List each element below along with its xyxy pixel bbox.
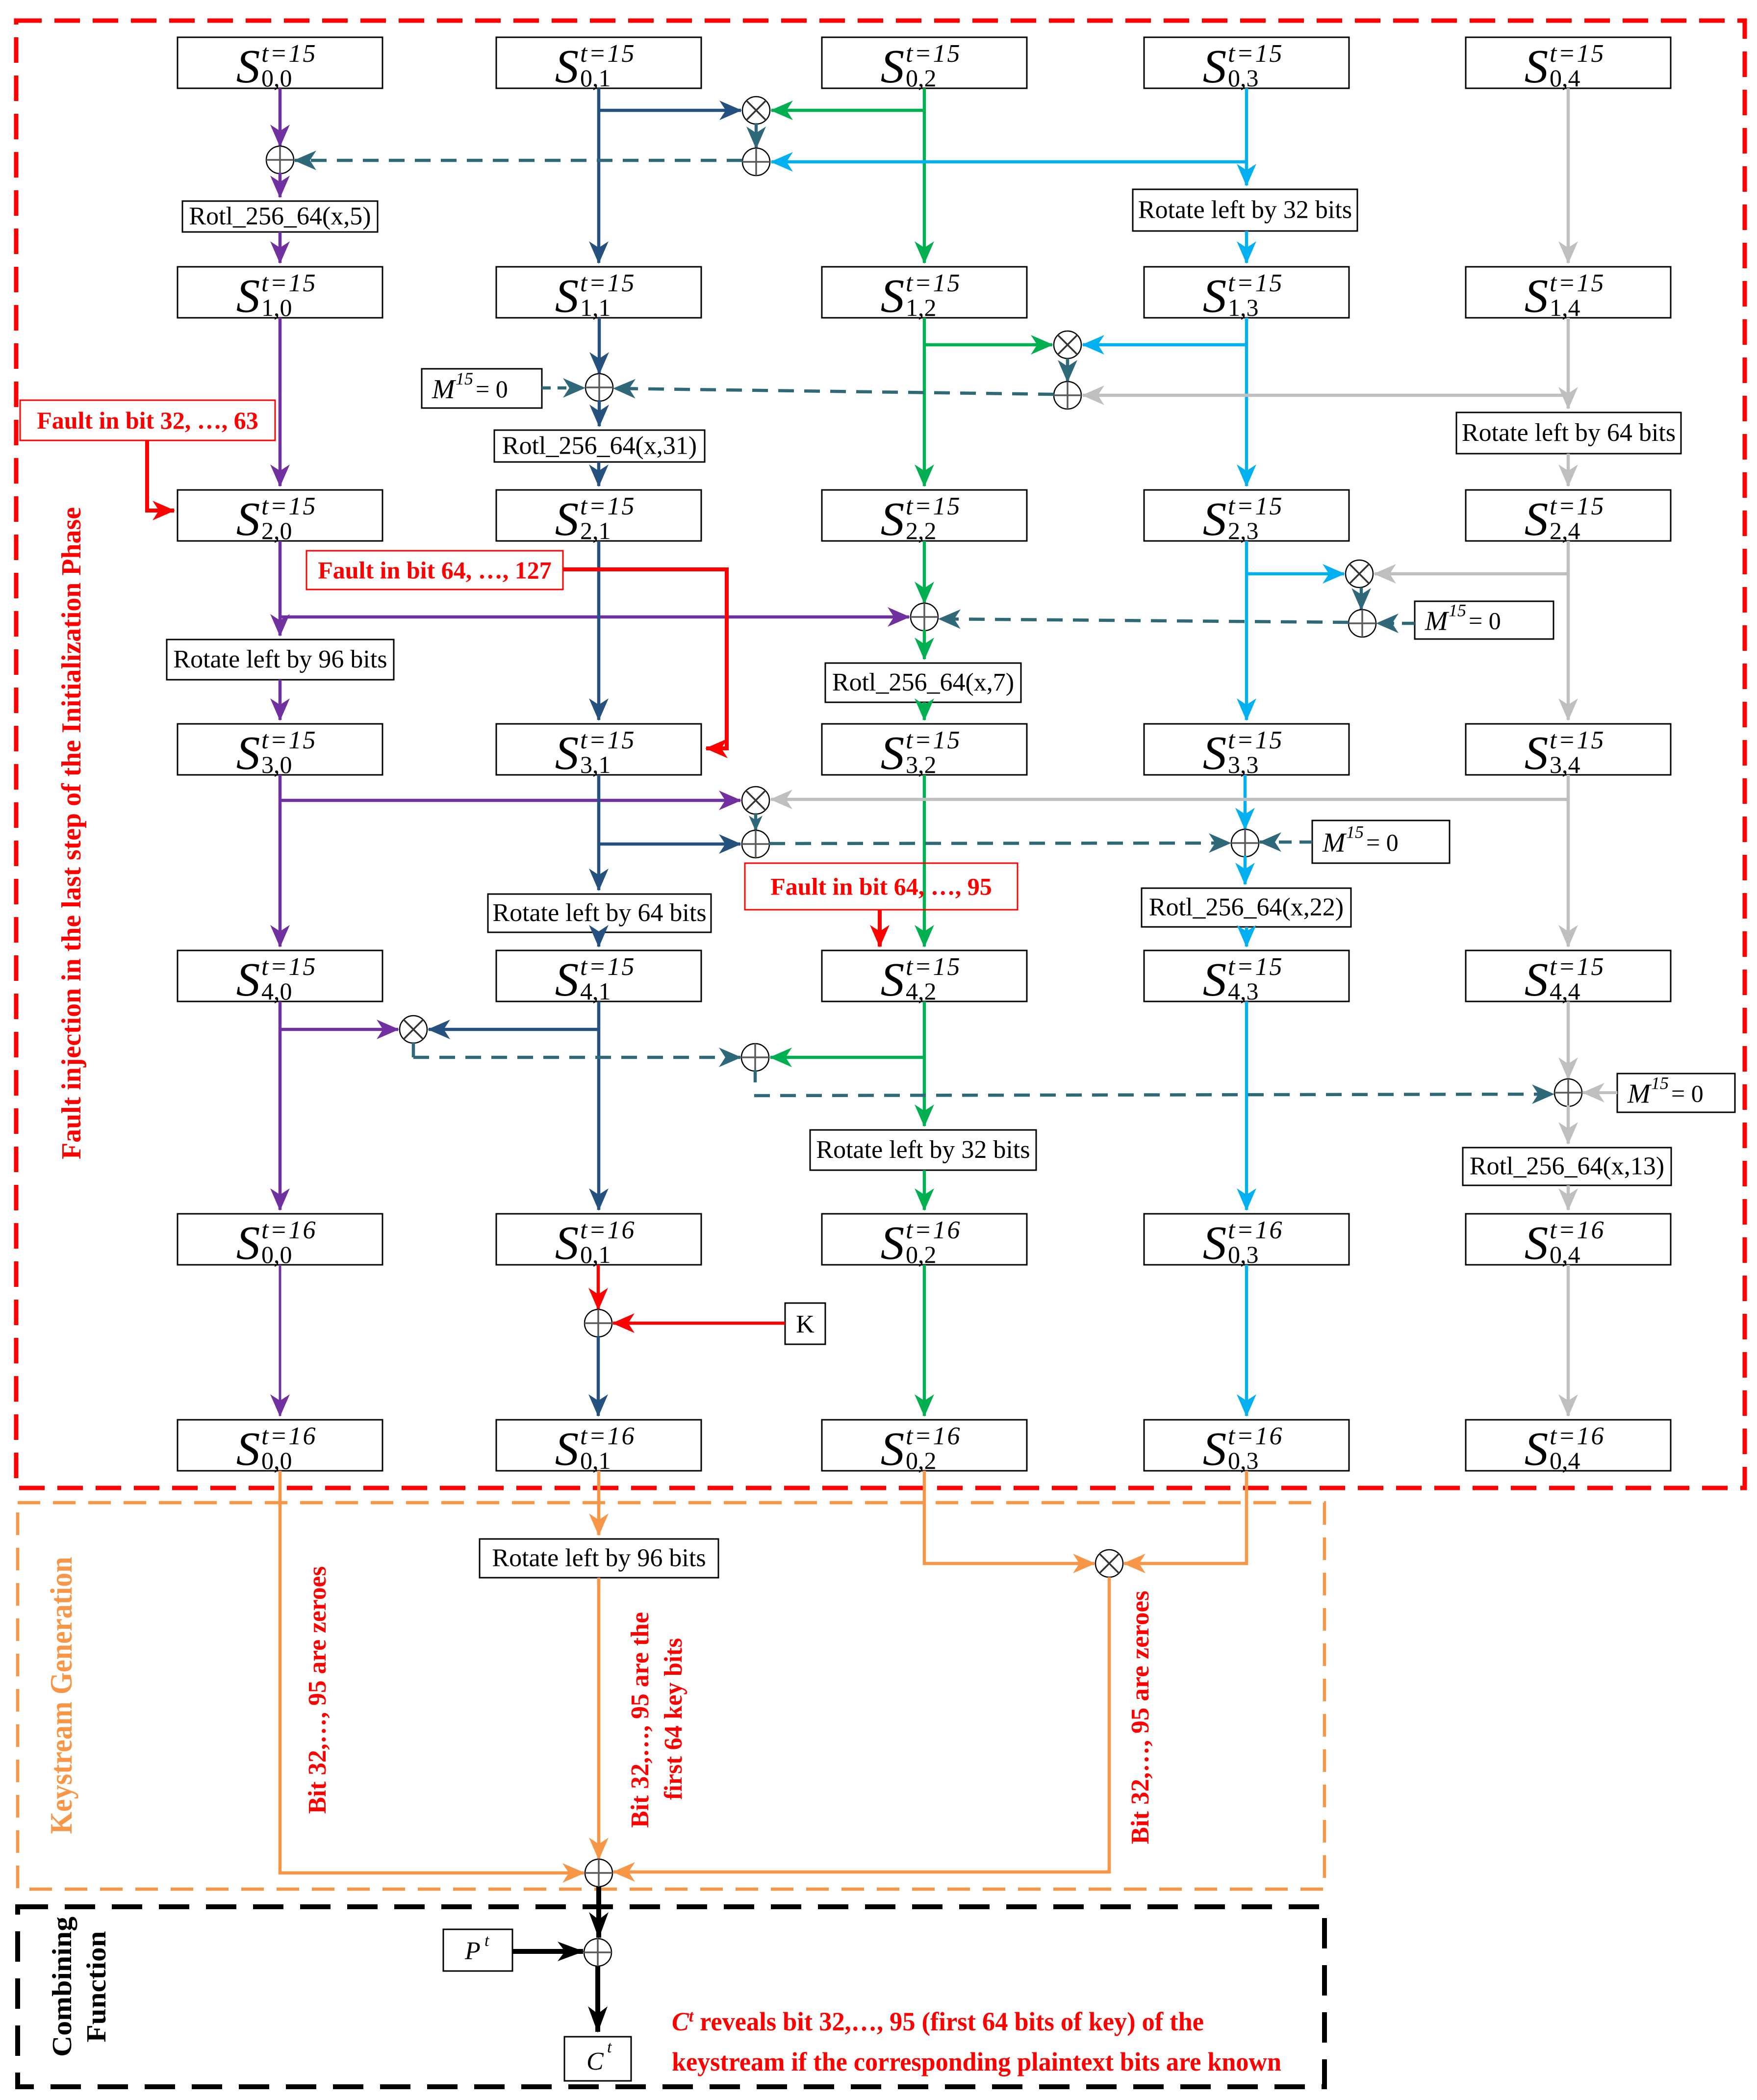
state box S43 t=15 (1144, 950, 1349, 1006)
red fault wire F2 to S31 (563, 569, 727, 748)
svg-text:S: S (1525, 270, 1549, 322)
state box S04 t=16 first (1466, 1214, 1671, 1269)
svg-text:S: S (555, 953, 579, 1006)
svg-text:0,4: 0,4 (1550, 1447, 1580, 1474)
state box S33 t=15 (1144, 724, 1349, 779)
svg-text:S: S (1525, 953, 1549, 1006)
svg-text:1,4: 1,4 (1550, 294, 1580, 321)
dashed teal arrow M15C to xor PC (1260, 841, 1312, 844)
state box S00 t=16 second (178, 1420, 382, 1475)
xor node PO keystream (585, 1859, 612, 1887)
svg-text:S: S (236, 1423, 260, 1475)
wire navy branch right to mul X1 (599, 109, 741, 112)
svg-text:0,2: 0,2 (906, 1447, 937, 1474)
fault box F2: Fault in bit 64..127 (306, 551, 563, 589)
svg-text:3,0: 3,0 (261, 751, 292, 778)
svg-text:M: M (432, 374, 457, 405)
wire cyan Rotate32 to S13 (1245, 231, 1248, 263)
wire navy branch left to mul X5 (429, 1028, 599, 1031)
svg-text:Rotate left by 96 bits: Rotate left by 96 bits (492, 1544, 706, 1572)
state box S42 t=15 (822, 950, 1027, 1006)
svg-text:t=15: t=15 (261, 269, 317, 297)
svg-text:t=15: t=15 (1228, 269, 1284, 297)
svg-text:S: S (1525, 1217, 1549, 1269)
dashed teal wire xor P3 to xor PB (939, 619, 1349, 622)
dashed teal wire xor P4 to xor PC (769, 843, 1230, 844)
svg-text:t=15: t=15 (261, 726, 317, 754)
wire purple branch right to mul X5 (280, 1028, 398, 1031)
svg-text:Fault in bit 32, …, 63: Fault in bit 32, …, 63 (37, 407, 258, 434)
op box Rotl_256_64(x,7) (825, 663, 1021, 702)
svg-text:3,3: 3,3 (1228, 751, 1259, 778)
wire green S02 down to junction (923, 88, 926, 110)
wire navy S31 down to junction2 (597, 775, 601, 844)
black wire PF to Ct box (595, 1966, 600, 2032)
dashed teal arrow M15B to xor P3 (1377, 622, 1415, 625)
svg-text:t=15: t=15 (580, 726, 636, 754)
op box Rotl_256_64(x,22) (1142, 888, 1351, 927)
svg-text:Function: Function (81, 1931, 112, 2043)
wire purple S00 to xor node A0 (279, 88, 282, 146)
M15 box B (1415, 601, 1553, 640)
wire gray xor PD to Rotl13 (1567, 1105, 1570, 1144)
wire navy Rotate64 to S41 (597, 932, 601, 947)
svg-text:t=15: t=15 (1228, 40, 1284, 68)
wire cyan branch left to mul X2 (1083, 343, 1247, 347)
state box S10 t=15 (178, 267, 382, 322)
svg-text:t=15: t=15 (1228, 492, 1284, 520)
svg-text:S: S (1525, 1423, 1549, 1475)
svg-text:first 64 key bits: first 64 key bits (660, 1638, 688, 1800)
svg-text:t=15: t=15 (261, 953, 317, 981)
wire gray junction to Rotate64 box (1567, 395, 1570, 409)
svg-text:0,4: 0,4 (1550, 1241, 1580, 1268)
svg-text:S: S (881, 953, 905, 1006)
wire navy S21 to S31 (597, 541, 601, 720)
svg-text:4,2: 4,2 (906, 977, 937, 1005)
svg-text:t=15: t=15 (580, 269, 636, 297)
orange dashed border: keystream generation box (18, 1503, 1324, 1889)
dashed teal wire xor P1 to xor A0 (295, 159, 742, 162)
svg-text:Bit 32,…, 95 are zeroes: Bit 32,…, 95 are zeroes (1126, 1591, 1154, 1844)
svg-text:S: S (1203, 1217, 1227, 1269)
svg-text:S: S (236, 40, 260, 93)
svg-text:Keystream Generation: Keystream Generation (44, 1557, 78, 1834)
svg-text:t=16: t=16 (261, 1422, 317, 1450)
state box S11 t=15 (496, 267, 701, 322)
xor node P2 (1054, 382, 1081, 409)
state box S44 t=15 (1466, 950, 1671, 1006)
wire purple S20 down to junction (279, 541, 282, 617)
svg-text:4,4: 4,4 (1550, 977, 1580, 1005)
wire gray S24 down to junction2 (1567, 541, 1570, 573)
svg-text:S: S (236, 727, 260, 779)
svg-text:t=15: t=15 (1228, 953, 1284, 981)
teal elbow X5 to dashed run (412, 1042, 415, 1057)
svg-text:t=16: t=16 (261, 1216, 317, 1244)
orange wire col2 to mul XO (924, 1471, 1095, 1563)
state box S02 t=16 second (822, 1420, 1027, 1475)
svg-text:S: S (236, 270, 260, 322)
wire purple S30 down to junction2 (279, 775, 282, 800)
dashed teal arrow M15A to xor PA (542, 386, 585, 390)
wire cyan branch right to mul X3 (1247, 572, 1344, 576)
wire cyan S03t16 to S03t16 second (1245, 1265, 1248, 1416)
op box Rotate left by 32 bits col2 (810, 1130, 1036, 1170)
svg-text:0,1: 0,1 (580, 1241, 611, 1268)
svg-text:0,3: 0,3 (1228, 1241, 1259, 1268)
state box S03 t=16 first (1144, 1214, 1349, 1269)
svg-text:S: S (881, 727, 905, 779)
svg-text:t=15: t=15 (906, 726, 962, 754)
xor node PC (1231, 829, 1259, 857)
svg-text:Combining: Combining (47, 1917, 77, 2057)
wire purple junction3 to S00 t=16 (279, 1029, 282, 1210)
svg-text:S: S (555, 1217, 579, 1269)
state box S03 t=15 (1144, 37, 1349, 93)
wire cyan S13 down to junction2 (1245, 318, 1248, 345)
svg-text:t=15: t=15 (261, 40, 317, 68)
state box S12 t=15 (822, 267, 1027, 322)
svg-text:t=16: t=16 (906, 1216, 962, 1244)
xor node A0 (266, 146, 294, 174)
svg-text:2,1: 2,1 (580, 517, 611, 544)
svg-text:t=15: t=15 (1550, 953, 1605, 981)
wire cyan Rotl22 to S43 (1245, 927, 1248, 947)
state box S01 t=15 (496, 37, 701, 93)
wire gray S44 to xor PD (1567, 1001, 1570, 1079)
svg-text:t=16: t=16 (580, 1216, 636, 1244)
wire cyan S33 to xor PC (1244, 775, 1247, 829)
svg-text:M: M (1322, 828, 1347, 858)
svg-text:M: M (1627, 1079, 1652, 1109)
mul node X4 (742, 787, 769, 814)
state box S40 t=15 (178, 950, 382, 1006)
svg-text:Bit 32,…, 95 are zeroes: Bit 32,…, 95 are zeroes (304, 1566, 331, 1814)
svg-text:t=15: t=15 (1550, 726, 1605, 754)
wire navy S41 down to junction3 (597, 1001, 601, 1029)
mul node XO orange (1095, 1550, 1123, 1577)
wire gray branch left to mul X3 (1375, 572, 1568, 576)
black wire Pt to xor PF (512, 1949, 583, 1954)
svg-text:0,3: 0,3 (1228, 1447, 1259, 1474)
svg-text:15: 15 (1651, 1074, 1669, 1093)
svg-text:S: S (1203, 953, 1227, 1006)
xor node P5 (741, 1044, 769, 1071)
wire red K to xor PK (613, 1322, 785, 1325)
svg-text:Rotate left by 96 bits: Rotate left by 96 bits (173, 645, 387, 673)
wire cyan S03 down to junction (1245, 88, 1248, 162)
xor node P3 (1349, 610, 1376, 637)
wire gray junction2 to S34 (1567, 573, 1570, 720)
wire purple branch right to mul X4 (280, 799, 740, 802)
op box Rotate left by 32 bits col3 (1133, 189, 1357, 231)
svg-text:S: S (555, 40, 579, 93)
svg-text:3,1: 3,1 (580, 751, 611, 778)
xor node PB (911, 603, 938, 631)
svg-text:Rotate left by 64 bits: Rotate left by 64 bits (1462, 419, 1676, 447)
wire green branch left to xor P5 (770, 1056, 924, 1059)
state box S20 t=15 (178, 490, 382, 545)
svg-text:S: S (1203, 40, 1227, 93)
svg-text:2,3: 2,3 (1228, 517, 1259, 544)
mul node X2 (1054, 331, 1081, 359)
black dashed border: combining function box (18, 1907, 1324, 2087)
xor node PK key addition (585, 1309, 612, 1337)
orange wire Rotate96 to xor PO (597, 1578, 601, 1859)
svg-text:S: S (1525, 727, 1549, 779)
teal stub X1 to xor P1 (755, 123, 758, 148)
svg-text:M: M (1425, 606, 1450, 637)
svg-text:1,0: 1,0 (261, 294, 292, 321)
wire purple xor A0 to Rotl box (279, 173, 282, 197)
wire green S22 to xor PB (923, 541, 926, 603)
svg-text:S: S (555, 270, 579, 322)
wire cyan branch left to xor P1 (771, 160, 1247, 164)
svg-text:S: S (555, 493, 579, 545)
wire green S02t16 to S02t16 second (923, 1265, 926, 1416)
state box S32 t=15 (822, 724, 1027, 779)
svg-text:1,1: 1,1 (580, 294, 611, 321)
svg-text:t=16: t=16 (1228, 1422, 1284, 1450)
wire red S01t16 to xor PK (597, 1265, 600, 1309)
wire gray junction3 to S44 (1567, 799, 1570, 947)
svg-text:2,4: 2,4 (1550, 517, 1580, 544)
svg-text:t=15: t=15 (906, 269, 962, 297)
state box S01 t=16 second (496, 1420, 701, 1475)
wire navy junction3 to S01 t=16 (597, 1029, 601, 1210)
wire cyan junction3 to S33 (1245, 573, 1248, 720)
svg-text:S: S (236, 1217, 260, 1269)
wire green S32 to S42 (923, 775, 926, 947)
wire green xor PB to Rotl7 (923, 630, 926, 659)
teal stub X3 to xor P3 (1360, 588, 1363, 610)
wire green Rotate32 to S02 t=16 (923, 1170, 926, 1210)
fault box F1: Fault in bit 32..63 (20, 400, 275, 440)
wire purple branch right to xor PB (280, 615, 909, 619)
svg-text:0,1: 0,1 (580, 1447, 611, 1474)
svg-text:S: S (1203, 727, 1227, 779)
state box S04 t=15 (1466, 37, 1671, 93)
svg-text:S: S (555, 727, 579, 779)
svg-text:2,2: 2,2 (906, 517, 937, 544)
orange wire col1 into Rotate96 (597, 1471, 601, 1535)
mul node X3 (1346, 560, 1373, 588)
svg-text:S: S (555, 1423, 579, 1475)
svg-text:t=16: t=16 (1550, 1216, 1605, 1244)
wire navy branch right to xor P4 (599, 843, 740, 846)
wire cyan S43 to S03 t=16 (1245, 1001, 1248, 1210)
svg-text:= 0: = 0 (1671, 1080, 1704, 1107)
svg-text:15: 15 (1346, 822, 1364, 842)
mul node X1 (742, 97, 770, 124)
black wire PO to xor PF (596, 1887, 601, 1938)
state box S23 t=15 (1144, 490, 1349, 545)
wire green S12 down to junction2 (923, 318, 926, 345)
wire gray Rotl13 to S04 t=16 (1567, 1185, 1570, 1210)
wire gray Rotate64 to S24 (1567, 454, 1570, 486)
wire gray S04t16 to S04t16 second (1567, 1265, 1570, 1416)
svg-text:0,0: 0,0 (261, 1241, 292, 1268)
state box S02 t=15 (822, 37, 1027, 93)
svg-text:Rotl_256_64(x,13): Rotl_256_64(x,13) (1470, 1152, 1664, 1180)
svg-text:15: 15 (1449, 601, 1466, 620)
K box (785, 1303, 825, 1344)
svg-text:0,3: 0,3 (1228, 64, 1259, 92)
wire cyan S23 down to junction3 (1245, 541, 1248, 573)
svg-text:t=15: t=15 (1228, 726, 1284, 754)
svg-text:Ct reveals bit 32,…, 95 (firs: Ct reveals bit 32,…, 95 (first 64 bits o… (672, 2007, 1204, 2036)
svg-text:Fault in bit 64, …, 95: Fault in bit 64, …, 95 (770, 873, 992, 900)
wire gray S34 down to junction3 (1567, 775, 1570, 799)
state box S31 t=15 (496, 724, 701, 779)
op box Rotl_256_64(x,5) (182, 201, 378, 232)
xor node PD (1554, 1079, 1582, 1106)
state box S22 t=15 (822, 490, 1027, 545)
svg-text:t=15: t=15 (580, 953, 636, 981)
state box S02 t=16 first (822, 1214, 1027, 1269)
state box S30 t=15 (178, 724, 382, 779)
svg-text:P: P (464, 1937, 481, 1965)
svg-text:Rotl_256_64(x,31): Rotl_256_64(x,31) (502, 432, 697, 460)
svg-text:= 0: = 0 (1469, 607, 1501, 635)
state box S14 t=15 (1466, 267, 1671, 322)
wire cyan junction2 to S23 (1245, 345, 1248, 486)
gray arrow M15D to xor PD (1583, 1091, 1617, 1094)
svg-text:0,2: 0,2 (906, 1241, 937, 1268)
svg-text:S: S (1525, 40, 1549, 93)
wire navy S01 down to junction (597, 88, 601, 110)
M15 box A (422, 369, 542, 408)
wire green branch right to mul X2 (924, 343, 1052, 347)
svg-text:0,2: 0,2 (906, 64, 937, 92)
svg-text:Rotate left by 32 bits: Rotate left by 32 bits (1138, 196, 1352, 224)
svg-text:= 0: = 0 (1366, 829, 1399, 856)
svg-text:S: S (881, 493, 905, 545)
M15 box C (1312, 820, 1450, 863)
Pt box (443, 1929, 512, 1971)
svg-text:t=15: t=15 (906, 492, 962, 520)
svg-text:= 0: = 0 (476, 375, 508, 403)
wire purple Rotl to S10 (279, 232, 282, 263)
op box Rotate left by 64 bits col4 (1456, 412, 1681, 454)
wire green junction to S12 (923, 110, 926, 263)
dashed teal wire P5 to xor PD (754, 1094, 1553, 1096)
state box S03 t=16 second (1144, 1420, 1349, 1475)
svg-text:3,2: 3,2 (906, 751, 937, 778)
svg-text:t=15: t=15 (1550, 40, 1605, 68)
xor node P1 (742, 148, 770, 176)
wire navy junction2 to Rotate64 box (597, 844, 601, 890)
red fault wire F3 to S42 (878, 910, 882, 947)
wire cyan xor PC to Rotl22 (1244, 856, 1247, 884)
svg-text:Rotate left by 64 bits: Rotate left by 64 bits (492, 899, 706, 927)
wire purple junction2 to S40 (279, 800, 282, 947)
svg-text:Fault injection in the last st: Fault injection in the last step of the … (56, 507, 87, 1159)
orange wire XO to xor PO (613, 1577, 1109, 1872)
red fault wire F1 to S20 (147, 440, 174, 511)
svg-text:S: S (881, 1423, 905, 1475)
red dashed border: fault injection phase box (16, 21, 1745, 1488)
wire green Rotl7 to S32 (923, 702, 926, 720)
wire purple Rotate96 to S30 (279, 680, 282, 720)
wire green S42 down to junction3 (923, 1001, 926, 1057)
svg-text:4,1: 4,1 (580, 977, 611, 1005)
xor node PF combining (584, 1939, 611, 1966)
svg-text:0,4: 0,4 (1550, 64, 1580, 92)
dashed teal wire X5 to xor P5 (413, 1056, 740, 1059)
state box S00 t=15 (178, 37, 382, 93)
svg-text:15: 15 (456, 369, 473, 388)
svg-text:t: t (607, 2038, 612, 2056)
svg-text:keystream if the correspondin: keystream if the corresponding plaintext… (672, 2047, 1281, 2076)
state box S01 t=16 first (496, 1214, 701, 1269)
teal stub X2 to xor P2 (1066, 359, 1069, 382)
wire purple S10 to S20 (279, 318, 282, 486)
svg-text:S: S (881, 40, 905, 93)
svg-text:t=16: t=16 (1550, 1422, 1605, 1450)
svg-text:t: t (484, 1932, 490, 1950)
state box S13 t=15 (1144, 267, 1349, 322)
svg-text:4,0: 4,0 (261, 977, 292, 1005)
svg-text:t=16: t=16 (1228, 1216, 1284, 1244)
svg-text:Fault in bit 64, …, 127: Fault in bit 64, …, 127 (318, 557, 551, 584)
wire navy xor PK to S01 t=16 second (597, 1336, 600, 1416)
wire gray branch left to xor P2 (1083, 394, 1568, 397)
xor node P4 (742, 830, 769, 858)
svg-text:0,0: 0,0 (261, 1447, 292, 1474)
svg-text:3,4: 3,4 (1550, 751, 1580, 778)
svg-text:S: S (236, 493, 260, 545)
mul node X5 (400, 1016, 427, 1043)
svg-text:1,3: 1,3 (1228, 294, 1259, 321)
op box Rotate left by 96 bits (167, 640, 394, 680)
svg-text:C: C (586, 2048, 604, 2075)
wire purple junction to Rotate96 box (279, 617, 282, 636)
wire navy xor PA to Rotl31 (598, 400, 601, 426)
svg-text:t=15: t=15 (906, 953, 962, 981)
svg-text:S: S (236, 953, 260, 1006)
op box Rotl_256_64(x,13) (1463, 1148, 1671, 1185)
wire cyan junction to Rotate32 box (1245, 162, 1248, 185)
state box S04 t=16 second (1466, 1420, 1671, 1475)
orange wire col3 to mul XO (1124, 1471, 1247, 1563)
svg-text:2,0: 2,0 (261, 517, 292, 544)
svg-text:t=15: t=15 (580, 40, 636, 68)
svg-text:0,1: 0,1 (580, 64, 611, 92)
svg-text:S: S (1525, 493, 1549, 545)
svg-text:t=16: t=16 (906, 1422, 962, 1450)
state box S00 t=16 first (178, 1214, 382, 1269)
state box S41 t=15 (496, 950, 701, 1006)
xor node PA (586, 374, 613, 401)
M15 box D (1617, 1074, 1735, 1113)
svg-text:S: S (1203, 1423, 1227, 1475)
wire gray S04 to S14 (1567, 88, 1570, 263)
svg-text:t=15: t=15 (580, 492, 636, 520)
wire navy S11 to xor PA (598, 318, 601, 374)
svg-text:Rotl_256_64(x,5): Rotl_256_64(x,5) (189, 203, 371, 230)
wire purple S40 down to junction3 (279, 1001, 282, 1029)
svg-text:t=15: t=15 (1550, 269, 1605, 297)
op box Rotate left by 96 bits keystream (480, 1539, 718, 1578)
dashed teal wire xor P2 to xor PA (614, 388, 1054, 394)
svg-text:t=15: t=15 (906, 40, 962, 68)
op box Rotate left by 64 bits col1 (488, 894, 711, 932)
svg-text:K: K (796, 1310, 815, 1338)
op box Rotl_256_64(x,31) (494, 430, 705, 462)
svg-text:t=15: t=15 (1550, 492, 1605, 520)
